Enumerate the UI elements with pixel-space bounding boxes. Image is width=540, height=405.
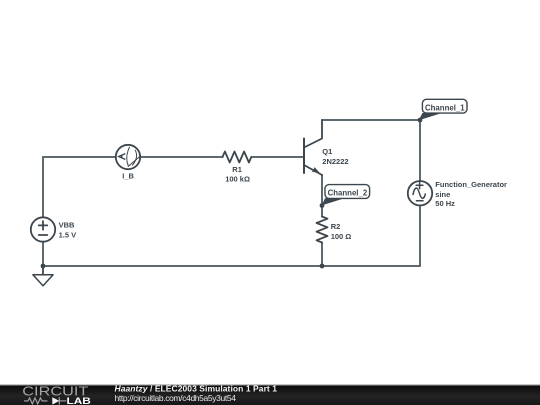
- svg-text:100 Ω: 100 Ω: [331, 232, 352, 241]
- svg-text:Haantzy / ELEC2003 Simulation: Haantzy / ELEC2003 Simulation 1 Part 1: [115, 384, 278, 393]
- svg-text:Q1: Q1: [322, 147, 332, 156]
- svg-text:1.5 V: 1.5 V: [59, 231, 77, 240]
- svg-text:VBB: VBB: [59, 221, 75, 230]
- svg-text:2N2222: 2N2222: [322, 157, 348, 166]
- svg-text:sine: sine: [435, 190, 450, 199]
- svg-text:50 Hz: 50 Hz: [435, 199, 455, 208]
- svg-text:100 kΩ: 100 kΩ: [225, 175, 250, 184]
- svg-text:I_B: I_B: [122, 171, 134, 180]
- svg-text:R1: R1: [232, 165, 242, 174]
- svg-text:LAB: LAB: [67, 396, 92, 405]
- svg-text:Channel_2: Channel_2: [328, 188, 368, 198]
- svg-text:Channel_1: Channel_1: [425, 102, 465, 112]
- svg-text:R2: R2: [331, 222, 341, 231]
- svg-text:http://circuitlab.com/c4dh5a5y: http://circuitlab.com/c4dh5a5y3ut54: [115, 393, 237, 403]
- svg-text:Function_Generator: Function_Generator: [435, 180, 507, 189]
